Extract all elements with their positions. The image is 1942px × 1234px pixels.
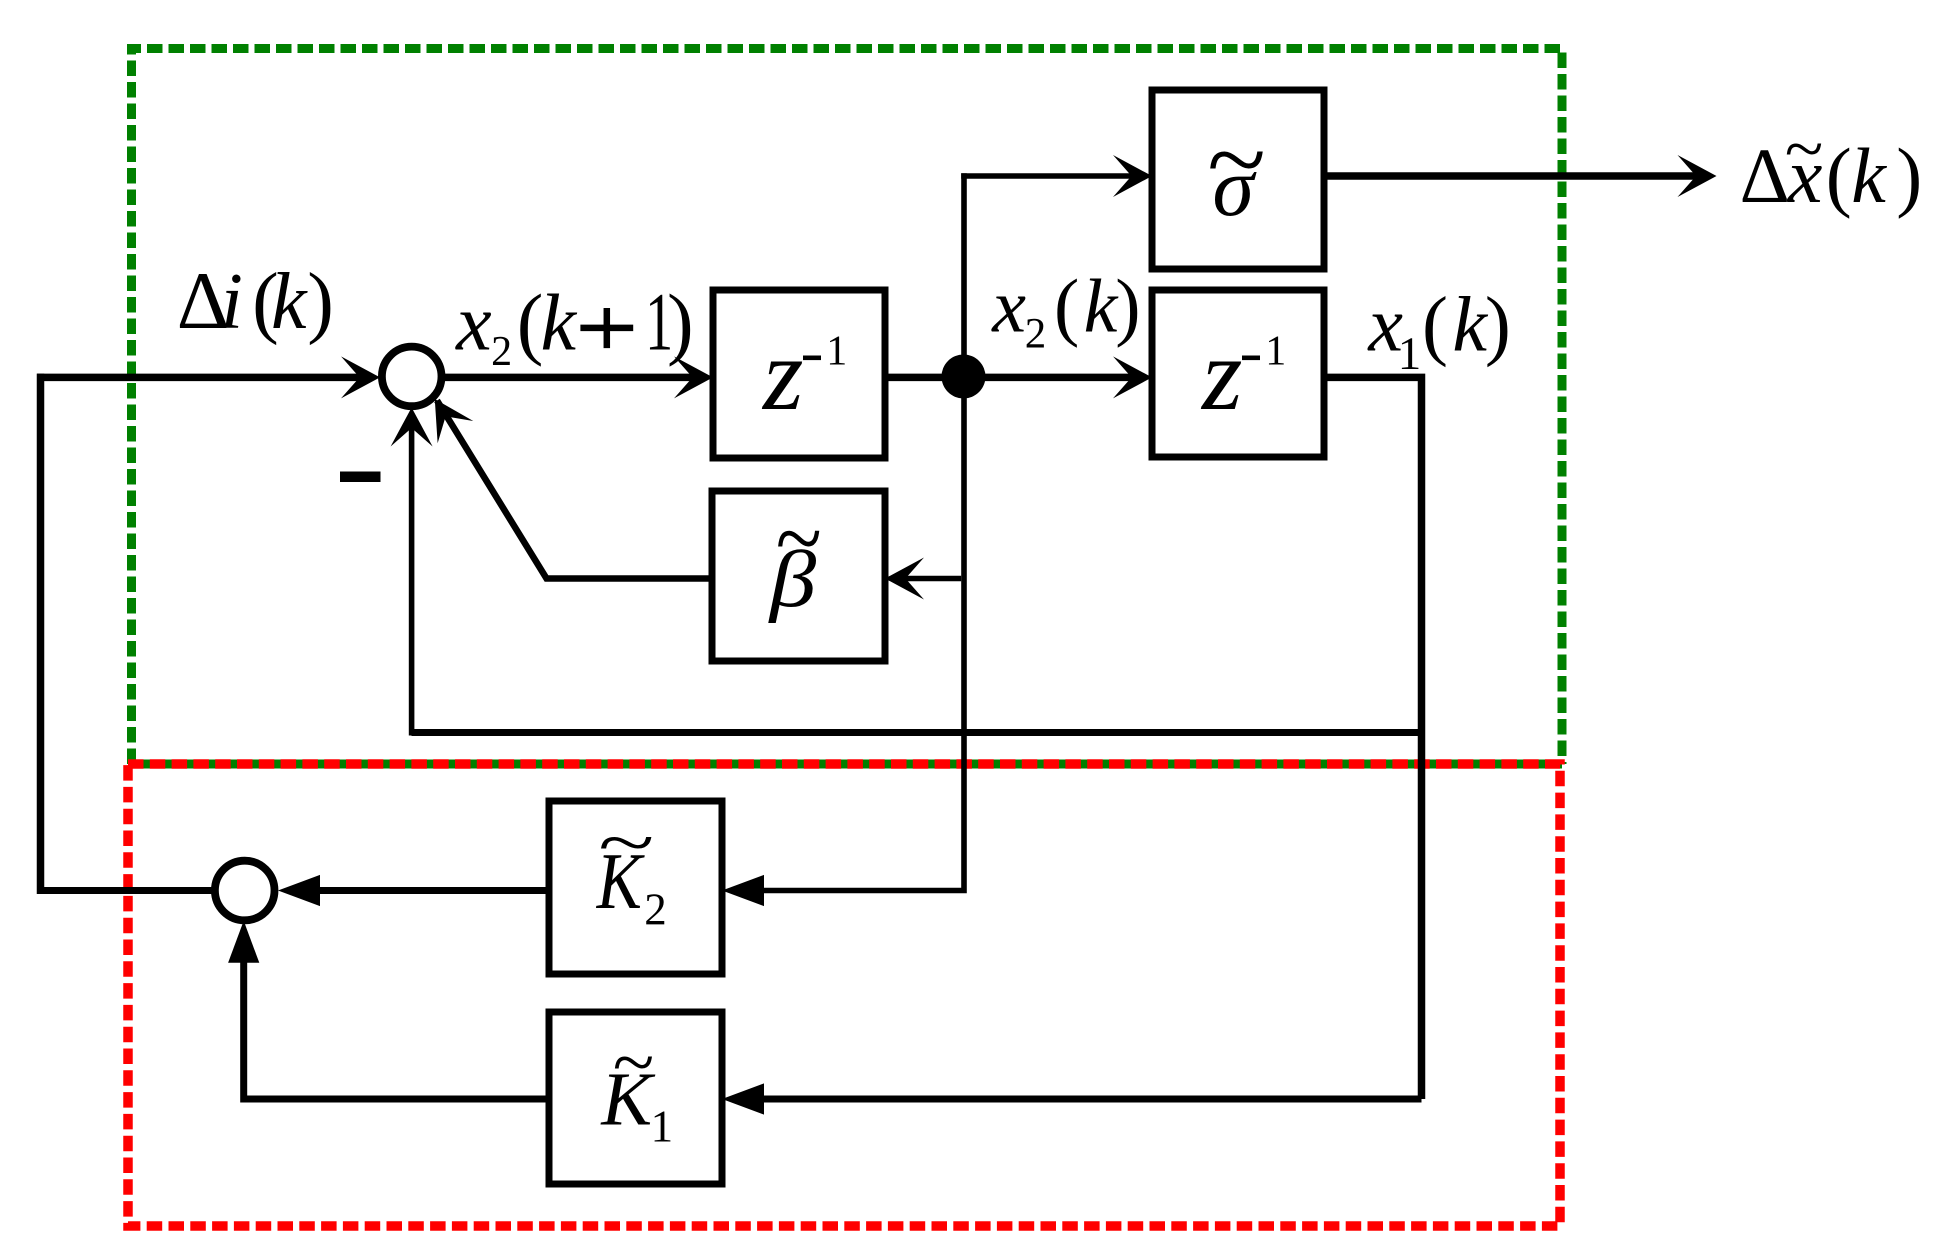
wire: sigma output to Δx(k) (1324, 172, 1700, 180)
arrowhead up into S2 bottom (228, 921, 259, 963)
arrowhead into beta right side (885, 558, 924, 600)
svg-text:1: 1 (1398, 328, 1422, 380)
wire: horizontal into sigma block (961, 173, 1137, 179)
observer region (green dashed box) (132, 49, 1563, 765)
K2 block (549, 801, 722, 974)
svg-text:): ) (667, 280, 694, 368)
arrowhead into S2 from right (278, 875, 320, 906)
arrowhead into K1 right side (722, 1083, 764, 1114)
svg-text:): ) (1115, 264, 1140, 348)
svg-text:(: ( (1054, 264, 1079, 348)
label z^-1 in U2 (1200, 317, 1286, 432)
svg-text:k: k (541, 280, 578, 368)
controller region (red dashed box) (128, 764, 1560, 1226)
svg-text:2: 2 (491, 329, 512, 375)
summing junction S1 (382, 347, 442, 407)
svg-text:(: ( (517, 280, 544, 368)
wire: node branch down to K2 row (744, 377, 964, 891)
svg-text:2: 2 (1025, 311, 1047, 358)
svg-text:1: 1 (1265, 328, 1286, 374)
label Δi(k) input (177, 255, 334, 346)
delay block U2 z^-1 (1152, 290, 1324, 457)
wire: node branch up to sigma block (961, 173, 967, 377)
label sigma tilde in U3 (1206, 104, 1265, 234)
minus sign at S1 (340, 472, 381, 483)
wire: input Δi(k) horizontal into summing junction S1 (37, 374, 362, 382)
summing junction S2 (215, 861, 275, 921)
svg-text:z: z (761, 317, 803, 432)
label x2(k) (991, 264, 1140, 357)
sigma block U3 (1152, 90, 1324, 269)
svg-text:~: ~ (1206, 104, 1265, 215)
svg-text:(: ( (1826, 132, 1852, 219)
arrowhead up into S1 bottom (391, 408, 433, 447)
label Δx̃(k) output (1740, 112, 1923, 219)
svg-text:~: ~ (597, 804, 653, 881)
label x2(k+1) (455, 277, 694, 375)
wire: mid feedback horizontal x1 to under S1 (412, 729, 1422, 736)
svg-text:(: ( (1422, 281, 1448, 368)
svg-text:): ) (307, 258, 334, 346)
arrowhead into sigma block (1113, 155, 1152, 197)
node x2(k) junction dot (942, 355, 986, 399)
wire: beta output left then diagonal into S1 (437, 401, 712, 579)
arrowhead into delay block U1 (674, 356, 713, 398)
output arrowhead (1678, 155, 1717, 197)
label x1(k) (1367, 281, 1510, 381)
svg-text:x: x (991, 264, 1026, 348)
svg-text:1: 1 (651, 1102, 674, 1152)
K1 block (549, 1012, 722, 1184)
beta block U4 (712, 491, 885, 661)
svg-text:1: 1 (826, 328, 847, 374)
arrowhead into K2 right side (722, 875, 764, 906)
svg-text:k: k (1452, 281, 1488, 368)
svg-text:): ) (1896, 132, 1922, 219)
wire: left vertical feedback riser (37, 374, 45, 894)
svg-text:z: z (1200, 317, 1242, 432)
svg-text:k: k (271, 258, 308, 346)
wire: beta input tap (903, 576, 961, 582)
label K1 tilde (600, 1023, 673, 1152)
arrowhead into S1 from left (341, 356, 380, 398)
wire: vertical up into S1 bottom (409, 425, 415, 736)
svg-text:i: i (221, 258, 243, 346)
label beta tilde in U4 (768, 487, 821, 624)
wire: K2 output into S2 (295, 887, 549, 894)
wire: S1 output to z^-1 block (441, 374, 698, 382)
arrowhead into U2 (1113, 356, 1152, 398)
svg-text:2: 2 (644, 885, 667, 935)
svg-text:k: k (1851, 132, 1887, 219)
arrowhead diagonal into S1 (417, 388, 473, 443)
wire: K1 output left then up into S2 bottom (244, 940, 549, 1099)
wire: bottom sum output to left (37, 887, 213, 894)
svg-text:Δ: Δ (1740, 132, 1790, 219)
svg-text:~: ~ (1784, 112, 1822, 185)
delay block U1 z^-1 (713, 290, 885, 458)
label K2 tilde (596, 804, 667, 934)
wire: K1 input from x1 riser (744, 1096, 1422, 1103)
svg-text:~: ~ (775, 487, 821, 591)
svg-text:x: x (455, 280, 492, 368)
svg-text:k: k (1084, 264, 1119, 348)
label z^-1 in U1 (761, 317, 847, 432)
wire: U1 output through node to delay block U2 (885, 374, 1137, 382)
wire: U2 output x1(k) right then down (1324, 377, 1422, 1099)
svg-text:): ) (1485, 281, 1511, 368)
svg-text:~: ~ (612, 1023, 653, 1102)
